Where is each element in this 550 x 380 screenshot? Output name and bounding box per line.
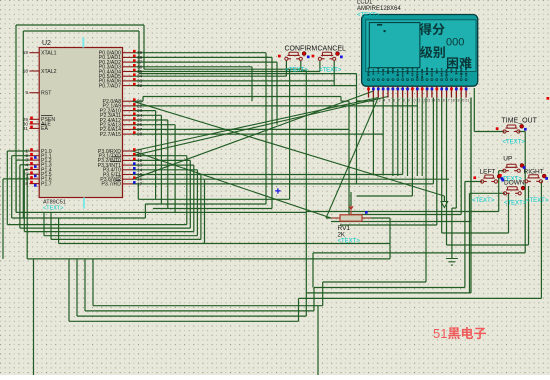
wire P1.5 to RV1	[27, 174, 390, 259]
wire P1.6 TIME_OUT net	[3, 132, 525, 288]
wire P1.3 left loop	[20, 160, 190, 228]
svg-text:6: 6	[393, 99, 395, 103]
wire LCD pin drop d	[397, 98, 399, 177]
wire diagonal to LCD a	[133, 98, 379, 152]
LCD pin numbers	[369, 99, 470, 103]
wire P0.2 row	[133, 62, 278, 125]
svg-text:17: 17	[137, 181, 143, 186]
wire RV1 left	[326, 217, 340, 219]
wire P2 branch vertical b	[160, 115, 162, 204]
wire P1.4 left loop	[24, 165, 194, 232]
wire P2 branch vertical d	[174, 125, 176, 213]
wire P2.2 row	[133, 110, 156, 112]
svg-text:<TEXT>: <TEXT>	[503, 140, 526, 146]
wire mid row 3	[153, 57, 272, 208]
wire P2 branch vertical c	[167, 120, 169, 209]
svg-text:P0.7/AD7: P0.7/AD7	[99, 83, 121, 89]
svg-text:<TEXT>: <TEXT>	[43, 206, 63, 212]
wire diagonal to RV1	[133, 151, 332, 218]
wire P0.1 row	[133, 56, 273, 58]
U2 left pin blue markers	[34, 156, 37, 187]
potentiometer RV1 2K	[340, 215, 362, 221]
svg-text:9: 9	[408, 99, 410, 103]
wire LEFT button net	[85, 182, 482, 311]
svg-text:000: 000	[446, 36, 464, 48]
wire P2.4 row	[133, 119, 168, 121]
wire net top loop 1	[16, 25, 301, 212]
svg-text:<TEXT>: <TEXT>	[504, 200, 527, 206]
wire P0.6 row	[133, 80, 335, 82]
svg-text:EA: EA	[41, 126, 48, 132]
wire P2.5 row	[133, 124, 176, 126]
wire P1.2 mid row	[16, 160, 306, 212]
wire P2.1 row	[133, 105, 418, 107]
svg-text:16: 16	[441, 99, 445, 103]
wire P3.6 row across	[133, 178, 450, 180]
U2 left pins	[23, 50, 57, 187]
svg-text:5: 5	[388, 99, 390, 103]
wire P3.7 row to LCD	[133, 98, 434, 184]
push button TIME_OUT	[496, 118, 538, 146]
wire LCD pin drop a	[372, 101, 374, 176]
wire off-edge vertical left	[33, 259, 35, 375]
svg-text:P2.7/A15: P2.7/A15	[100, 132, 121, 138]
wire LCD pin drop g	[357, 98, 413, 197]
svg-text:<TEXT>: <TEXT>	[338, 239, 361, 245]
wire mid row 2	[145, 53, 266, 204]
wire LCD pin drop i	[421, 98, 423, 177]
wire UP button net	[93, 98, 504, 306]
svg-text:<TEXT>: <TEXT>	[319, 68, 342, 74]
wire stair 5	[44, 170, 197, 236]
RV1 blue marker	[365, 211, 368, 214]
wire P1.0 left loop	[7, 151, 187, 225]
wire DOWN right drop	[442, 98, 509, 234]
wire net top loop 2	[23, 31, 373, 218]
wire P2.6 row	[133, 128, 350, 130]
svg-text:RST: RST	[41, 91, 52, 97]
microcontroller U2 AT89C51 body	[39, 48, 122, 198]
svg-text:14: 14	[431, 99, 435, 103]
wire stair 7	[59, 179, 390, 243]
wire LCD pin drop b	[382, 98, 384, 176]
LCD pins	[369, 86, 467, 97]
wire mid row 1	[138, 69, 289, 199]
wire arrow stub	[443, 196, 445, 202]
push button CONFIRM	[278, 46, 317, 74]
LCD pin name strip	[367, 68, 467, 81]
wire P2.1 vertical	[356, 101, 358, 184]
wire LCD pin drop f	[407, 98, 409, 177]
wire P2 branch vertical a	[155, 111, 157, 200]
svg-text:LCD1: LCD1	[357, 0, 373, 6]
LCD game field rectangle	[369, 23, 420, 68]
svg-text:11: 11	[417, 99, 421, 103]
svg-text:CONFIRM: CONFIRM	[285, 46, 318, 53]
wire end arrow	[441, 202, 448, 208]
wire mid right row b	[331, 98, 471, 222]
wire RV1 wiper up	[350, 192, 352, 206]
svg-text:AMPIRE128X64: AMPIRE128X64	[357, 6, 401, 12]
svg-text:<TEXT>: <TEXT>	[472, 198, 495, 204]
wire off-edge vertical mid	[317, 306, 319, 375]
svg-text:2: 2	[374, 99, 376, 103]
wire RV1 right	[362, 217, 390, 219]
LCD pin markers	[367, 88, 467, 91]
svg-text:P1.7: P1.7	[41, 181, 52, 187]
LCD text score	[419, 23, 431, 35]
svg-text:RV1: RV1	[338, 225, 351, 232]
svg-text:21: 21	[465, 99, 469, 103]
svg-text:1: 1	[369, 99, 371, 103]
wire P0.3 row	[133, 67, 253, 101]
svg-text:UP: UP	[503, 156, 512, 163]
wire P0.7 row	[133, 85, 357, 87]
svg-text:12: 12	[421, 99, 425, 103]
wire LCD pin drop c	[392, 98, 394, 177]
wire P2.3 row	[133, 114, 162, 116]
svg-text:51: 51	[433, 326, 447, 341]
svg-text:32: 32	[137, 83, 143, 88]
svg-text:TIME_OUT: TIME_OUT	[502, 118, 538, 125]
svg-text:U2: U2	[42, 40, 51, 47]
wire diagonal LCD to RV1	[326, 98, 378, 219]
svg-text:9: 9	[25, 90, 28, 95]
push button RIGHT	[524, 168, 549, 204]
svg-text:CANCEL: CANCEL	[318, 46, 347, 53]
wire P3.5 long row	[133, 174, 403, 176]
wire stair 6	[51, 175, 201, 240]
svg-text:10: 10	[412, 99, 416, 103]
wire CONFIRM left drop	[285, 61, 287, 76]
wire mid right row c	[340, 98, 437, 226]
LCD display LCD1 AMPIRE128X64 body	[362, 15, 478, 87]
svg-text:20: 20	[460, 99, 464, 103]
LCD food dot	[384, 30, 386, 32]
svg-text:DOWN: DOWN	[504, 179, 525, 186]
wire DOWN button net	[77, 98, 505, 317]
svg-text:8: 8	[25, 181, 28, 186]
svg-text:XTAL1: XTAL1	[41, 51, 57, 57]
svg-text:18: 18	[23, 69, 29, 74]
svg-text:4: 4	[383, 99, 385, 103]
wire LCD pin drop h	[416, 98, 418, 177]
svg-text:LEFT: LEFT	[480, 169, 496, 176]
push button CANCEL	[312, 46, 346, 74]
svg-text:P3.7/RD: P3.7/RD	[101, 182, 121, 188]
svg-text:31: 31	[23, 126, 29, 131]
wire ground vertical	[452, 98, 456, 259]
wire TIME_OUT right wire	[518, 131, 525, 133]
cyan line below chip	[83, 198, 85, 209]
svg-text:15: 15	[436, 99, 440, 103]
svg-text:<TEXT>: <TEXT>	[526, 198, 549, 204]
wire P0.0 row	[133, 52, 267, 54]
wire P1.1 left loop	[12, 156, 146, 218]
wire P2.7 row	[133, 133, 384, 135]
svg-text:13: 13	[426, 99, 430, 103]
svg-text:XTAL2: XTAL2	[41, 69, 57, 75]
svg-text:18: 18	[451, 99, 455, 103]
wire RIGHT button net	[69, 181, 541, 321]
LCD text level	[420, 46, 433, 58]
wire TIME_OUT left wire	[474, 88, 504, 132]
push button LEFT	[472, 169, 504, 204]
svg-text:RIGHT: RIGHT	[524, 168, 544, 175]
svg-text:8: 8	[403, 99, 405, 103]
wire mid long vertical	[301, 70, 307, 293]
wire RIGHT left drop	[447, 98, 529, 246]
U2 right pins	[98, 50, 143, 188]
svg-text:19: 19	[23, 50, 29, 55]
wire P0.5 row	[133, 75, 287, 77]
wire diagonal to arrow	[133, 101, 445, 196]
svg-text:17: 17	[446, 99, 450, 103]
wire CANCEL left drop	[319, 61, 321, 72]
LCD text hard	[447, 57, 458, 69]
push button UP	[500, 156, 526, 183]
svg-text:7: 7	[398, 99, 400, 103]
cyan line above chip	[82, 38, 84, 48]
wire P2.0 row	[133, 97, 350, 215]
push button DOWN	[499, 174, 527, 206]
LCD snake dash	[377, 24, 382, 26]
wire P0.4 row	[133, 71, 320, 73]
junction marker blue cross	[275, 188, 280, 193]
wire CONFIRM right drop	[300, 61, 302, 69]
wire LCD pin drop e	[402, 98, 404, 175]
ground symbol	[446, 259, 458, 266]
wire CANCEL right drop	[333, 61, 335, 86]
clipped pin marker at right edge	[547, 97, 550, 100]
svg-text:<TEXT>: <TEXT>	[357, 13, 380, 19]
svg-text:<TEXT>: <TEXT>	[286, 68, 309, 74]
svg-text:19: 19	[456, 99, 460, 103]
wire diagonal to LCD b	[133, 97, 389, 156]
svg-text:28: 28	[137, 132, 143, 137]
svg-text:3: 3	[378, 99, 380, 103]
wire mid right row a	[349, 98, 461, 215]
wire diagonal to LCD c	[133, 91, 374, 179]
